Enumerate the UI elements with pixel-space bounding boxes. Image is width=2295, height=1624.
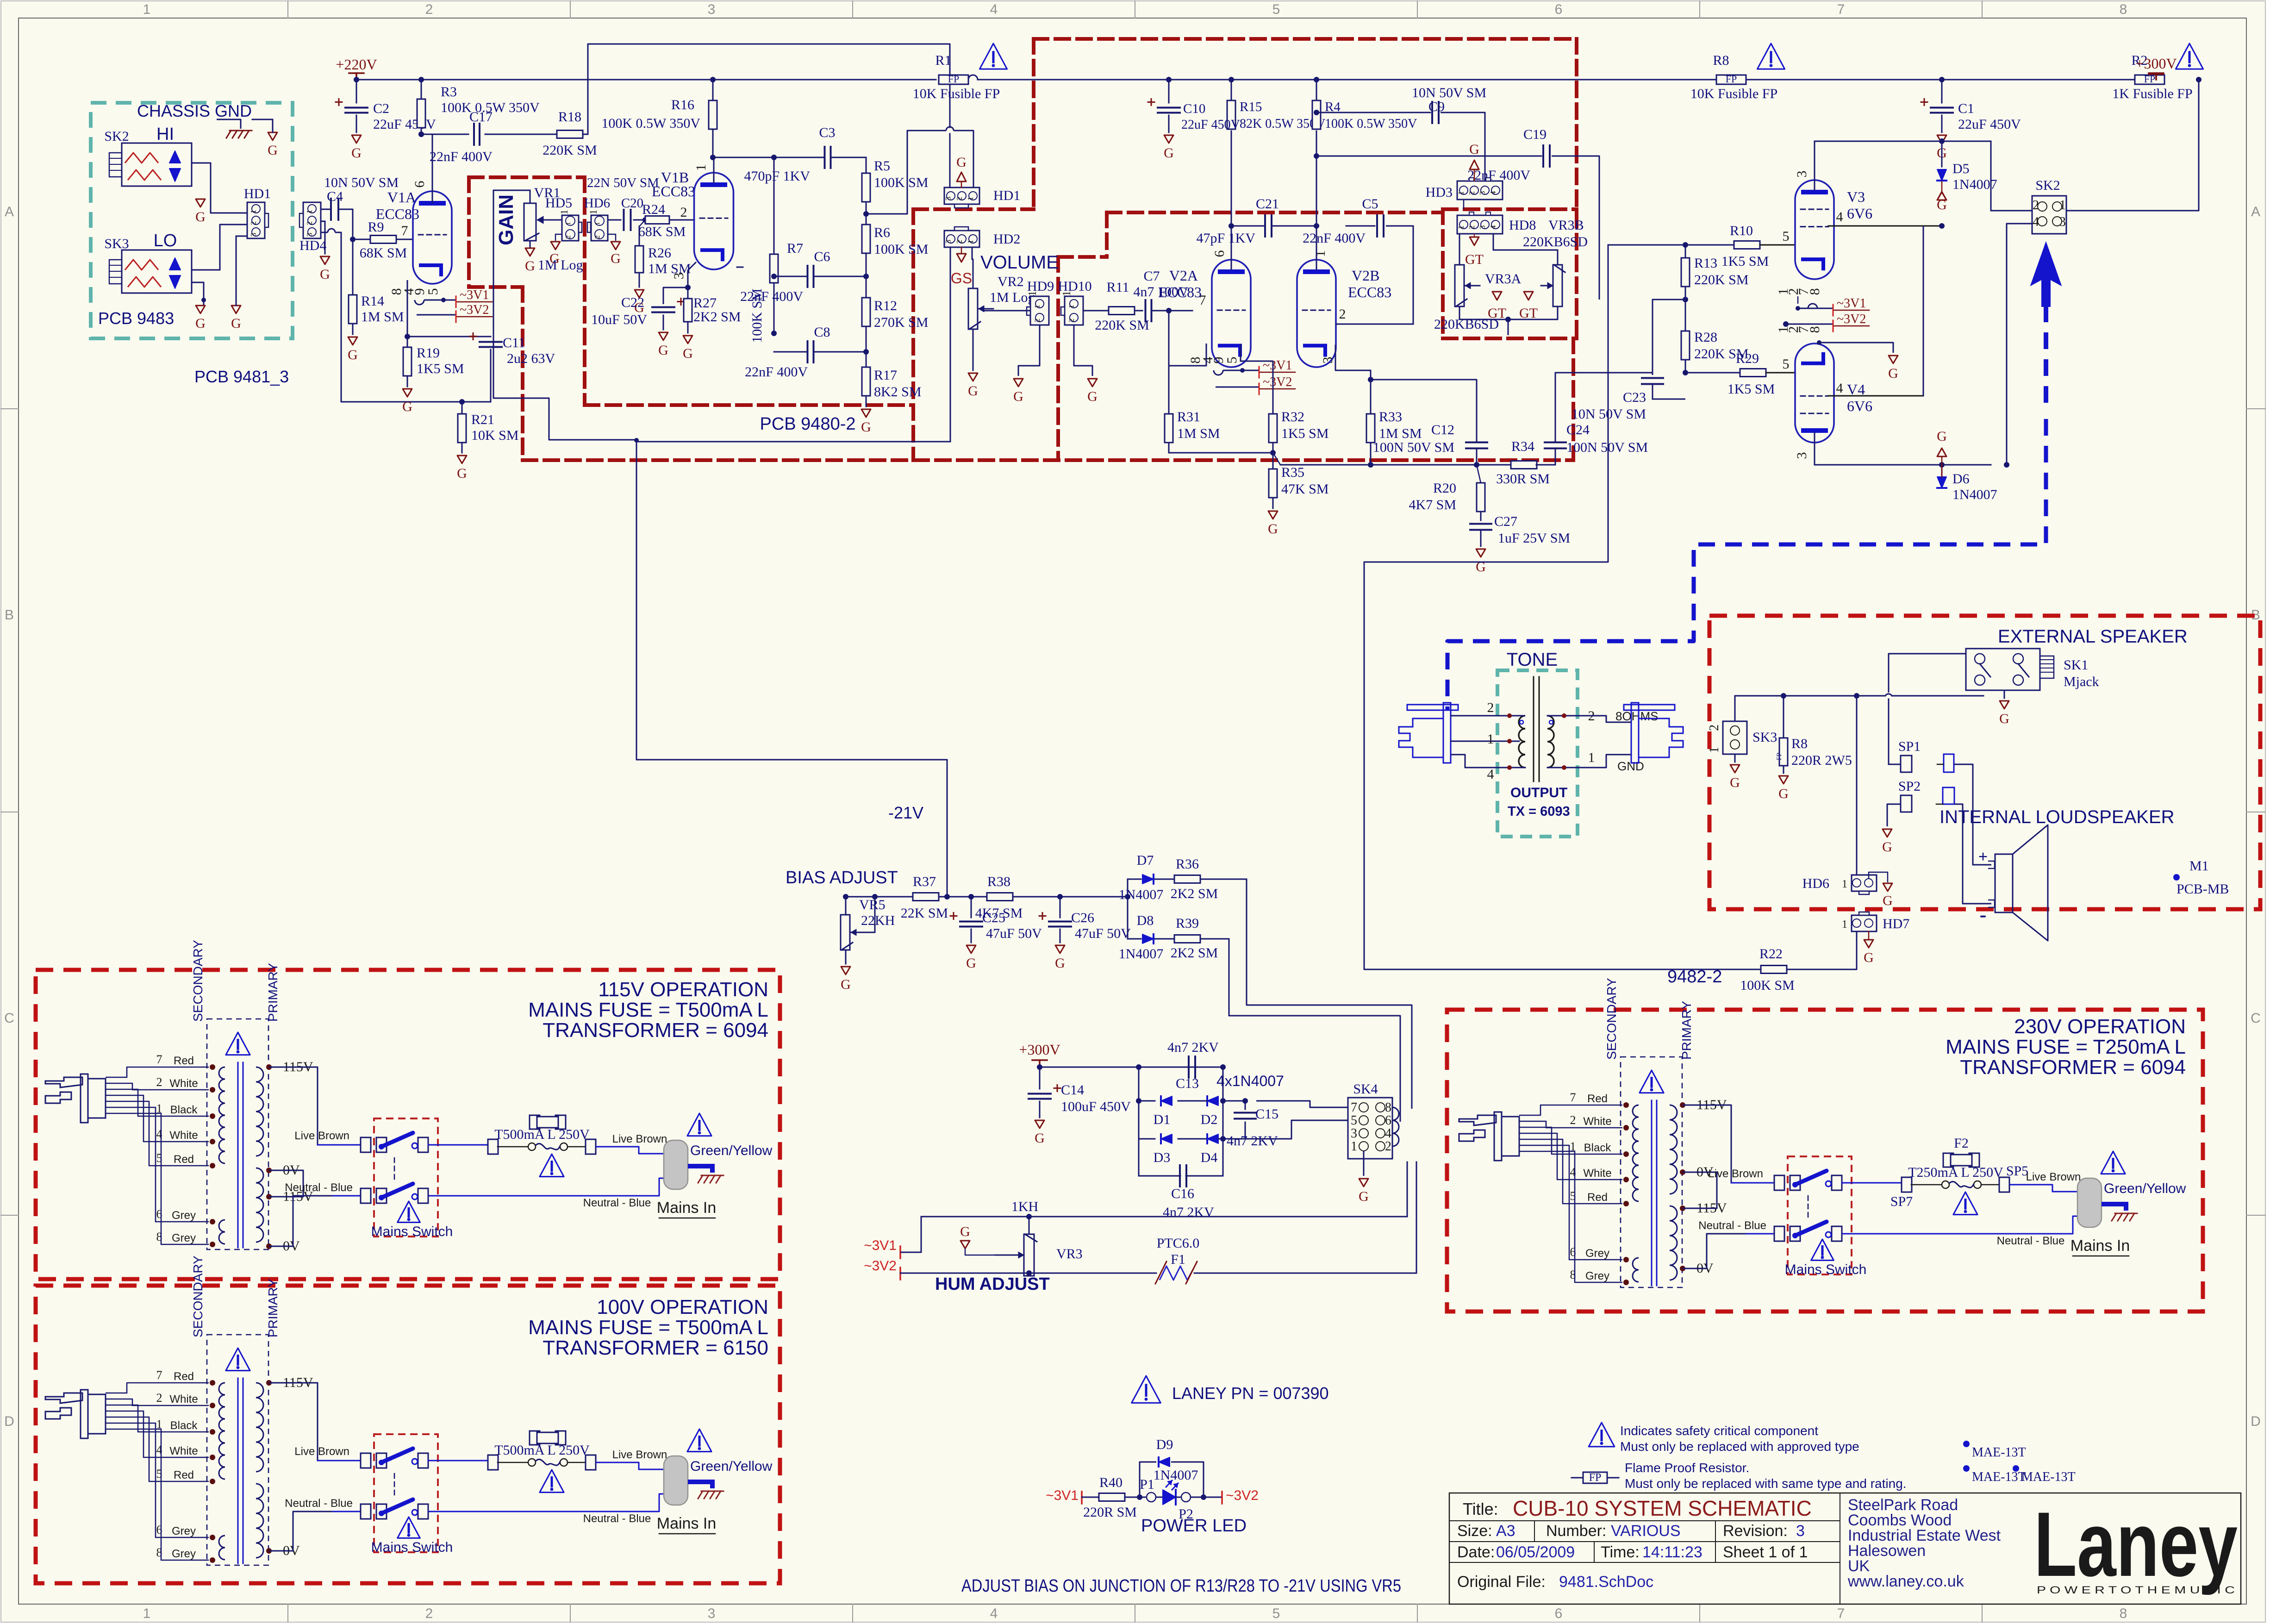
resistor R2 fusible <box>2135 75 2164 84</box>
svg-text:White: White <box>169 1445 198 1457</box>
OT left connector plug <box>1407 705 1458 710</box>
svg-text:TX = 6093: TX = 6093 <box>1508 804 1570 819</box>
svg-text:8: 8 <box>1807 326 1822 333</box>
capacitor C22 <box>663 287 688 304</box>
svg-text:22KH: 22KH <box>861 913 895 928</box>
100V OPERATION red dashed box <box>36 1286 780 1583</box>
SK4 right coil hops <box>1392 1107 1399 1120</box>
warning triangle mains switch <box>1811 1239 1834 1260</box>
svg-text:V2B: V2B <box>1352 267 1379 284</box>
svg-text:R40: R40 <box>1099 1475 1123 1490</box>
svg-text:7: 7 <box>1837 1606 1845 1621</box>
svg-text:CUB-10 SYSTEM SCHEMATIC: CUB-10 SYSTEM SCHEMATIC <box>1513 1496 1812 1520</box>
svg-text:D7: D7 <box>1137 853 1154 868</box>
svg-text:HD6: HD6 <box>1802 876 1829 891</box>
svg-text:D9: D9 <box>1156 1437 1173 1452</box>
svg-text:Grey: Grey <box>1585 1270 1609 1282</box>
resistor R31 <box>1165 414 1173 443</box>
wire C3 row <box>713 157 825 158</box>
jack SK1 Mjack <box>1966 649 2040 690</box>
svg-text:C13: C13 <box>1176 1076 1199 1091</box>
capacitor C2 <box>356 80 357 103</box>
connector SK3 <box>1723 721 1747 754</box>
svg-text:HD1: HD1 <box>244 186 271 201</box>
capacitor C7 <box>1145 300 1147 321</box>
svg-text:2: 2 <box>425 2 433 17</box>
svg-text:G: G <box>231 316 241 331</box>
ground below HD7 pin2 <box>1868 931 1870 939</box>
svg-text:Grey: Grey <box>1585 1247 1609 1260</box>
ground below R8 <box>1779 776 1788 784</box>
ground below HD10 <box>1074 325 1092 376</box>
svg-text:+: + <box>1978 847 1988 866</box>
svg-text:SP1: SP1 <box>1898 739 1921 754</box>
svg-text:G: G <box>348 347 358 362</box>
LED P2 pad <box>1176 1497 1181 1498</box>
svg-text:ECC83: ECC83 <box>1348 284 1391 300</box>
svg-text:5: 5 <box>1783 229 1790 244</box>
svg-text:C26: C26 <box>1071 910 1094 925</box>
VR1 wiper arrow <box>538 219 562 221</box>
svg-text:4: 4 <box>990 2 998 17</box>
svg-text:HD3: HD3 <box>1426 185 1453 200</box>
svg-text:5: 5 <box>1224 357 1240 364</box>
svg-text:470pF 1KV: 470pF 1KV <box>744 169 810 184</box>
svg-text:C10: C10 <box>1183 101 1205 116</box>
svg-text:MAINS FUSE = T500mA L: MAINS FUSE = T500mA L <box>528 1316 768 1339</box>
svg-text:3: 3 <box>1794 171 1809 178</box>
svg-text:3: 3 <box>708 2 716 17</box>
svg-text:1M SM: 1M SM <box>1177 426 1220 441</box>
svg-text:7: 7 <box>156 1053 162 1066</box>
transformer secondary dashed box <box>1621 1057 1682 1287</box>
wire speaker rail <box>1735 695 1885 697</box>
svg-text:R6: R6 <box>874 225 890 240</box>
wire fuse to mains in <box>596 1147 664 1154</box>
svg-text:P O W E R T O T H E M U: P O W E R T O T H E M U S I C <box>2037 1584 2235 1596</box>
svg-text:R39: R39 <box>1176 916 1199 931</box>
wire bridge top rail <box>1040 1067 1223 1068</box>
Mains Switch red dashed box <box>1788 1156 1852 1274</box>
svg-text:1: 1 <box>587 210 599 215</box>
svg-text:1: 1 <box>249 210 258 214</box>
svg-text:Flame Proof Resistor.: Flame Proof Resistor. <box>1625 1461 1749 1475</box>
resistor R16 <box>709 100 717 129</box>
svg-text:1: 1 <box>1707 747 1721 753</box>
svg-text:6: 6 <box>1555 1606 1563 1621</box>
wire gain loop <box>493 190 530 301</box>
svg-text:2: 2 <box>156 1391 162 1405</box>
svg-text:R17: R17 <box>874 368 897 383</box>
svg-text:Neutral - Blue: Neutral - Blue <box>1698 1219 1766 1232</box>
svg-text:MAE-13T: MAE-13T <box>1972 1445 2026 1460</box>
svg-text:2: 2 <box>305 221 314 225</box>
svg-text:1: 1 <box>1061 291 1073 296</box>
svg-text:R27: R27 <box>693 295 717 311</box>
svg-text:Neutral - Blue: Neutral - Blue <box>583 1512 651 1525</box>
svg-text:G: G <box>402 399 412 414</box>
svg-text:3: 3 <box>944 197 953 201</box>
wires plug to taps <box>106 1383 209 1393</box>
svg-text:Grey: Grey <box>172 1548 196 1560</box>
potentiometer VR3A <box>1455 265 1464 306</box>
svg-text:4: 4 <box>1487 767 1494 782</box>
resistor R4 <box>1312 100 1321 129</box>
ground below R35 <box>1268 511 1278 519</box>
wire HD2 pin1 to VR2 <box>972 247 973 288</box>
capacitor C14 <box>1039 1067 1041 1089</box>
OT secondary wires <box>1547 715 1583 717</box>
svg-text:220K SM: 220K SM <box>1095 318 1149 333</box>
svg-text:2: 2 <box>1467 225 1476 230</box>
ground below SP2 <box>1883 829 1892 837</box>
svg-text:B: B <box>5 607 14 623</box>
ground below VR1 <box>530 241 531 247</box>
svg-text:10uF 50V: 10uF 50V <box>591 312 647 327</box>
wire neutral to mains in <box>428 1178 664 1196</box>
svg-text:Black: Black <box>170 1104 198 1116</box>
capacitor C20 <box>608 219 621 221</box>
svg-text:VR2: VR2 <box>998 274 1024 289</box>
resistor R5 <box>862 173 870 202</box>
svg-text:Mains Switch: Mains Switch <box>1785 1262 1867 1277</box>
svg-text:4n7 2KV: 4n7 2KV <box>1227 1133 1278 1149</box>
svg-text:3: 3 <box>671 273 686 280</box>
svg-text:G: G <box>611 251 621 266</box>
warning triangle fuse <box>540 1470 564 1493</box>
svg-text:G: G <box>1087 389 1098 404</box>
svg-text:10N 50V SM: 10N 50V SM <box>324 175 399 190</box>
warning triangle legend <box>1589 1423 1615 1447</box>
svg-text:~3V1: ~3V1 <box>864 1238 897 1253</box>
svg-text:VR3A: VR3A <box>1485 271 1522 287</box>
svg-text:1: 1 <box>693 164 709 171</box>
svg-text:C5: C5 <box>1362 196 1378 212</box>
wire fuse to mains in <box>2009 1185 2077 1192</box>
ground below C25 <box>967 945 976 953</box>
svg-text:R15: R15 <box>1240 100 1262 114</box>
svg-text:P1: P1 <box>1140 1477 1154 1492</box>
PCB 9480-2 red dashed region outline <box>469 175 585 179</box>
TONE teal dashed box <box>1497 670 1578 837</box>
power +220V <box>349 72 364 74</box>
connector HD8 <box>1457 215 1503 234</box>
capacitor C25 <box>971 897 972 918</box>
svg-text:C6: C6 <box>814 249 830 264</box>
svg-text:F1: F1 <box>1171 1252 1185 1267</box>
wire top rail +220V <box>356 79 713 81</box>
svg-text:8: 8 <box>2120 2 2127 17</box>
svg-text:Green/Yellow: Green/Yellow <box>690 1459 773 1474</box>
svg-text:R33: R33 <box>1379 409 1402 425</box>
bridge rails <box>1138 1067 1140 1139</box>
potentiometer VR3B <box>1553 265 1562 306</box>
svg-text:R10: R10 <box>1730 223 1753 238</box>
svg-text:VR3B: VR3B <box>1548 218 1584 233</box>
resistor R1 fusible FP <box>939 75 968 84</box>
VR3 red dashed box <box>1441 209 1445 338</box>
svg-text:MAE-13T: MAE-13T <box>2021 1470 2076 1484</box>
resistor R17 <box>862 367 870 396</box>
VR3 wires <box>1463 200 1465 209</box>
svg-text:1M SM: 1M SM <box>1379 426 1422 441</box>
svg-text:2: 2 <box>955 240 964 244</box>
svg-text:Mains In: Mains In <box>657 1199 717 1217</box>
warning triangle fuse <box>1953 1192 1977 1215</box>
primary coils <box>256 1383 263 1472</box>
svg-text:C1: C1 <box>1958 101 1974 116</box>
wire primary 0V to switch bottom <box>269 1196 333 1246</box>
svg-text:A3: A3 <box>1496 1522 1515 1540</box>
svg-text:C7: C7 <box>1143 269 1160 284</box>
svg-text:Number:: Number: <box>1546 1522 1606 1540</box>
svg-text:1N4007: 1N4007 <box>1952 487 1997 502</box>
svg-text:ECC83: ECC83 <box>652 183 695 200</box>
svg-text:F2: F2 <box>1954 1136 1969 1151</box>
wire SK2 verticals <box>1991 141 2032 211</box>
svg-text:G: G <box>1882 839 1892 855</box>
svg-text:4: 4 <box>990 1606 998 1621</box>
diode D2 <box>1207 1096 1218 1106</box>
capacitor C19 <box>1314 153 1319 159</box>
svg-text:2: 2 <box>1487 700 1494 715</box>
wire primary 115V to switch <box>1683 1105 1731 1183</box>
svg-text:3: 3 <box>2059 215 2066 229</box>
diode D4 <box>1178 1138 1207 1140</box>
wire V3 plate rail <box>1815 141 1991 142</box>
svg-text:6: 6 <box>412 181 427 188</box>
wire D7 branch to SK4 <box>1247 879 1412 1109</box>
capacitor C4 <box>330 199 332 220</box>
wires jacks to HD1 <box>192 163 247 213</box>
svg-text:R31: R31 <box>1177 409 1200 425</box>
svg-text:Time:: Time: <box>1601 1543 1640 1561</box>
svg-text:R37: R37 <box>913 874 936 889</box>
capacitor C5 <box>1336 324 1413 325</box>
svg-text:White: White <box>169 1393 198 1405</box>
wire switch to fuse <box>428 1144 488 1146</box>
svg-text:C15: C15 <box>1255 1106 1278 1122</box>
svg-text:C2: C2 <box>373 101 389 116</box>
svg-text:R14: R14 <box>361 294 384 309</box>
wire rail R1 <box>713 79 936 81</box>
svg-text:220K SM: 220K SM <box>1694 272 1749 287</box>
svg-text:VR3: VR3 <box>1056 1246 1083 1262</box>
svg-text:1M Log: 1M Log <box>538 257 583 273</box>
svg-text:5: 5 <box>1272 2 1280 17</box>
primary tap dots <box>266 1064 272 1070</box>
resistor R37 <box>913 893 939 901</box>
svg-text:220K SM: 220K SM <box>543 143 597 158</box>
loudspeaker driver <box>1954 764 1991 865</box>
svg-text:SK1: SK1 <box>2064 657 2088 673</box>
svg-text:C12: C12 <box>1431 422 1454 437</box>
resistor R15 <box>1227 100 1235 129</box>
V3/V4 heater stubs <box>1797 296 1799 304</box>
svg-text:R32: R32 <box>1281 409 1304 425</box>
svg-text:100K 0.5W 350V: 100K 0.5W 350V <box>601 116 700 131</box>
svg-text:7: 7 <box>401 223 408 238</box>
svg-text:+300V: +300V <box>1019 1041 1060 1058</box>
secondary tap dots and lead labels <box>1623 1102 1629 1108</box>
svg-text:4: 4 <box>2033 215 2039 229</box>
wire 1KH rail <box>921 1216 1407 1218</box>
capacitor C8 <box>807 341 809 362</box>
fuse holder inline <box>528 1143 536 1150</box>
svg-text:C14: C14 <box>1061 1082 1084 1098</box>
svg-text:9481.SchDoc: 9481.SchDoc <box>1559 1573 1653 1591</box>
resistor R10 <box>1734 241 1760 249</box>
svg-text:+220V: +220V <box>336 56 377 73</box>
chassis-gnd teal dashed box PCB 9483 <box>91 103 293 338</box>
svg-text:2K2 SM: 2K2 SM <box>693 309 741 325</box>
svg-text:1: 1 <box>305 210 314 214</box>
svg-text:4n7 2KV: 4n7 2KV <box>1167 1040 1219 1055</box>
svg-text:2: 2 <box>594 235 601 239</box>
svg-text:1K5 SM: 1K5 SM <box>1721 254 1769 269</box>
ground below C22 <box>659 332 668 340</box>
svg-text:G: G <box>658 343 668 358</box>
Mains In connector <box>664 1140 688 1189</box>
svg-text:G: G <box>1035 1131 1045 1146</box>
mains switch pole neutral <box>1774 1226 1784 1241</box>
svg-text:06/05/2009: 06/05/2009 <box>1496 1543 1575 1561</box>
svg-text:C19: C19 <box>1523 127 1547 142</box>
svg-text:C: C <box>4 1011 14 1026</box>
primary coils <box>1670 1105 1677 1194</box>
wires bridge to SK4 <box>1256 1101 1348 1107</box>
svg-text:6: 6 <box>1385 1113 1391 1128</box>
V4 extra grid dash <box>1801 413 1828 414</box>
svg-text:~3V2: ~3V2 <box>1263 375 1292 389</box>
svg-text:3: 3 <box>1351 1126 1357 1141</box>
svg-text:OUTPUT: OUTPUT <box>1510 785 1567 800</box>
svg-text:SK3: SK3 <box>104 236 129 251</box>
fuse symbol <box>530 1115 540 1129</box>
svg-text:1M SM: 1M SM <box>361 309 404 325</box>
svg-text:Red: Red <box>174 1469 194 1481</box>
svg-text:R18: R18 <box>558 109 581 125</box>
warning triangle transformer <box>1640 1070 1664 1093</box>
svg-text:220R SM: 220R SM <box>1083 1505 1137 1520</box>
svg-text:MAINS FUSE = T250mA L: MAINS FUSE = T250mA L <box>1946 1036 2186 1058</box>
earth wire green/yellow <box>2102 1204 2126 1211</box>
svg-text:C25: C25 <box>982 910 1005 925</box>
svg-text:SP7: SP7 <box>1890 1194 1913 1209</box>
svg-text:HD5: HD5 <box>545 195 572 211</box>
ground below C27 <box>1476 549 1485 557</box>
resistor R9 <box>370 236 396 244</box>
svg-text:100K SM: 100K SM <box>874 175 929 190</box>
svg-text:Title:: Title: <box>1463 1499 1498 1518</box>
ground below C14 <box>1035 1120 1044 1128</box>
svg-text:C4: C4 <box>327 189 343 204</box>
svg-text:5: 5 <box>1272 1606 1280 1621</box>
resistor R3 <box>417 99 425 128</box>
mains switch pole live <box>1774 1175 1784 1190</box>
svg-text:Revision:: Revision: <box>1723 1522 1788 1540</box>
primary tap dots <box>1680 1102 1685 1108</box>
transformer secondary dashed box <box>207 1019 268 1249</box>
svg-text:2: 2 <box>2033 198 2039 212</box>
svg-text:SECONDARY: SECONDARY <box>1604 978 1619 1060</box>
ground below R26 <box>635 290 644 298</box>
svg-text:R13: R13 <box>1694 256 1717 271</box>
OT right connector plug <box>1631 703 1639 763</box>
svg-text:D2: D2 <box>1201 1112 1218 1127</box>
warning triangle R8 <box>1757 44 1784 69</box>
earth wire green/yellow <box>688 1482 712 1488</box>
jack SK3 LO <box>122 250 192 293</box>
svg-text:G: G <box>861 419 871 435</box>
svg-text:G: G <box>1778 786 1789 801</box>
svg-text:2: 2 <box>1385 1139 1391 1154</box>
svg-text:Grey: Grey <box>172 1525 196 1537</box>
svg-text:Red: Red <box>174 1370 194 1383</box>
svg-text:Mains In: Mains In <box>2070 1237 2130 1255</box>
svg-text:Mains In: Mains In <box>657 1515 717 1532</box>
svg-text:MAE-13T: MAE-13T <box>1972 1470 2026 1484</box>
mains plug <box>45 1077 82 1087</box>
V4 cathode ground stub <box>1817 340 1821 345</box>
connector HD2 <box>944 231 979 247</box>
svg-text:White: White <box>169 1077 198 1090</box>
svg-text:7: 7 <box>1570 1091 1576 1104</box>
connector HD4 <box>303 202 321 238</box>
LED D10 power <box>1156 1497 1163 1498</box>
wire neutral to mains in <box>1842 1216 2077 1234</box>
wires plug to taps <box>106 1067 209 1077</box>
svg-text:R34: R34 <box>1511 439 1534 454</box>
wire primary strap <box>269 1170 303 1197</box>
mains switch pole neutral <box>361 1188 371 1203</box>
svg-text:100N 50V SM: 100N 50V SM <box>1566 440 1648 455</box>
resistor R21 <box>458 414 466 443</box>
FP legend symbol <box>1572 1477 1583 1479</box>
svg-text:White: White <box>1583 1167 1611 1180</box>
svg-text:1: 1 <box>1068 305 1076 308</box>
resistor R33 <box>1366 414 1375 443</box>
Mains Switch red dashed box <box>374 1118 438 1237</box>
V2B plate wire to R4 <box>1316 131 1317 260</box>
svg-text:G: G <box>351 145 362 161</box>
svg-text:100N 50V SM: 100N 50V SM <box>1373 440 1454 455</box>
warning triangle R1 <box>979 44 1007 69</box>
capacitor C27 <box>1470 523 1491 525</box>
svg-text:G: G <box>956 155 967 170</box>
svg-text:3: 3 <box>305 233 314 237</box>
diode D9 bypass <box>1140 1462 1156 1497</box>
wire phase splitter feeds <box>1364 245 1761 969</box>
ground G arrows below jacks <box>196 199 205 207</box>
svg-text:10N 50V SM: 10N 50V SM <box>1412 85 1486 100</box>
svg-text:VOLUME: VOLUME <box>980 252 1059 273</box>
svg-text:CHASSIS GND: CHASSIS GND <box>137 101 252 120</box>
svg-text:FP: FP <box>1726 73 1737 85</box>
capacitor C26 <box>1060 897 1061 918</box>
svg-text:1: 1 <box>1034 305 1041 308</box>
svg-text:Live Brown: Live Brown <box>612 1449 667 1461</box>
diode D7 <box>1128 879 1141 880</box>
svg-text:22nF 400V: 22nF 400V <box>745 364 808 380</box>
svg-text:G: G <box>1055 956 1065 971</box>
svg-text:G: G <box>968 383 978 399</box>
svg-text:SP5: SP5 <box>2006 1163 2028 1179</box>
svg-text:4K7 SM: 4K7 SM <box>1409 497 1456 512</box>
wire primary strap <box>1683 1172 1717 1208</box>
svg-text:2: 2 <box>156 1075 162 1089</box>
svg-text:SK2: SK2 <box>104 129 129 144</box>
